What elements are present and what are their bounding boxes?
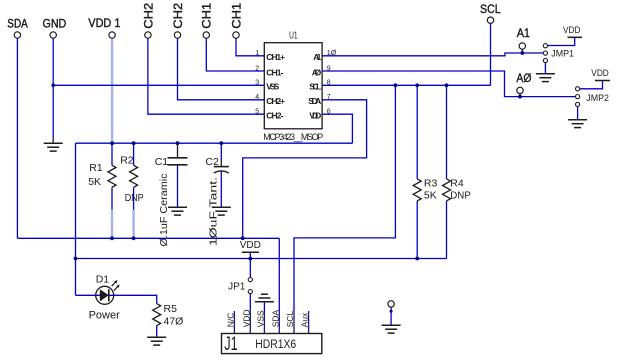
wire JMP2 top pin to VDD	[580, 81, 603, 89]
svg-text:2: 2	[255, 65, 259, 72]
U1 pin numbers	[255, 50, 336, 115]
svg-text:AØ: AØ	[312, 67, 322, 77]
svg-text:4: 4	[255, 94, 259, 101]
svg-text:VSS: VSS	[256, 310, 266, 327]
svg-text:VDD 1: VDD 1	[88, 16, 120, 30]
svg-text:1ØuF Tant.: 1ØuF Tant.	[207, 177, 219, 246]
svg-text:7: 7	[327, 94, 331, 101]
svg-text:CH2-: CH2-	[266, 111, 283, 121]
svg-text:MCP3423__MSOP: MCP3423__MSOP	[263, 132, 323, 142]
node SCL branch tee	[394, 83, 398, 87]
node VSS tap on GND wire	[51, 83, 55, 87]
wire C2 top stub	[220, 143, 222, 160]
wire R1 bottom stub	[111, 187, 113, 209]
wire CH1- terminal to U1 pin2	[206, 38, 264, 71]
node R1 bottom on SDA rail	[110, 236, 114, 240]
node VDD1 on top rail	[110, 141, 114, 145]
terminal A1	[517, 26, 531, 49]
node R3 bottom on VDD rail	[415, 257, 419, 261]
svg-text:CH1: CH1	[229, 2, 243, 28]
svg-text:1Ø: 1Ø	[327, 50, 337, 57]
svg-text:N/C: N/C	[226, 313, 236, 328]
wire U1 pin8 SCL horizontal	[322, 84, 490, 86]
svg-text:C2: C2	[205, 156, 219, 168]
node A0 stem junction	[518, 95, 522, 99]
svg-text:R1: R1	[89, 162, 103, 174]
resistor R4	[443, 178, 472, 202]
wire R5 to ground	[156, 325, 158, 337]
wire GND terminal vertical	[52, 38, 54, 137]
svg-text:8: 8	[327, 80, 331, 87]
terminal CH1 (a)	[200, 2, 214, 38]
svg-text:CH1: CH1	[200, 2, 214, 28]
wire J1 pin6 Aux stub	[308, 311, 310, 334]
capacitor C2	[205, 156, 228, 246]
svg-text:Aux: Aux	[300, 312, 310, 327]
terminal SCL	[480, 2, 501, 23]
terminal mounting hole	[388, 301, 394, 307]
ground below C2	[212, 207, 231, 215]
wire R4 top stub	[446, 85, 448, 179]
svg-text:47Ø: 47Ø	[164, 316, 184, 328]
node R2 bottom on SDA rail	[132, 236, 136, 240]
terminal SDA	[7, 16, 28, 38]
VDD power symbol (JMP2)	[591, 68, 610, 81]
svg-text:U1: U1	[289, 31, 298, 42]
resistor R1	[88, 162, 116, 188]
svg-text:SDA: SDA	[7, 16, 28, 30]
svg-text:VDD: VDD	[240, 240, 261, 251]
svg-text:SCL: SCL	[309, 82, 321, 92]
svg-text:SCL: SCL	[285, 310, 295, 327]
svg-text:R3: R3	[424, 178, 438, 190]
terminal GND	[43, 16, 67, 38]
svg-text:SDA: SDA	[270, 309, 280, 327]
terminal CH2 (b)	[171, 2, 185, 38]
wire R3 top stub	[416, 85, 418, 179]
wire VSS to U1 pin3	[53, 84, 264, 86]
wire A1 terminal stem	[521, 49, 523, 53]
svg-text:5K: 5K	[88, 176, 101, 188]
svg-text:5K: 5K	[424, 190, 437, 202]
wire SCL terminal vertical	[490, 23, 492, 85]
jumper JP1	[228, 278, 252, 294]
svg-text:VDD: VDD	[563, 25, 581, 36]
wire R2 bottom light stub	[132, 210, 134, 239]
wire R2 bottom stub	[133, 187, 135, 209]
svg-text:3: 3	[255, 80, 259, 87]
op-amp U1 body (MCP3423 ADC)	[263, 31, 323, 142]
svg-text:A1: A1	[313, 52, 321, 62]
svg-text:DNP: DNP	[125, 192, 144, 204]
svg-text:VDD: VDD	[591, 68, 609, 79]
resistor R2	[120, 154, 144, 204]
svg-text:CH1-: CH1-	[266, 67, 283, 77]
wire mounting terminal stem	[390, 307, 392, 325]
wire A0 terminal stem	[519, 94, 521, 97]
wire VDD symbol stem to JP1	[249, 252, 251, 277]
wire JMP1 top pin to VDD	[547, 37, 574, 45]
wire C2 bottom	[220, 171, 222, 207]
capacitor C1	[155, 143, 188, 246]
wire U1 pin10 A1 route	[322, 53, 543, 56]
svg-text:VDD: VDD	[309, 111, 321, 121]
wire D1 anode	[76, 294, 96, 296]
svg-text:CH2: CH2	[141, 2, 155, 28]
wire CH2- terminal to U1 pin5	[148, 38, 264, 114]
wire VDD top rail	[76, 142, 353, 144]
terminal CH1 (b)	[229, 2, 243, 38]
wire VDD left vertical	[75, 143, 77, 295]
node VDD symbol tap	[248, 257, 252, 261]
svg-text:A1: A1	[517, 26, 531, 40]
svg-text:C1: C1	[155, 156, 169, 168]
ground below JMP2	[568, 120, 587, 128]
wire R1 bottom light stub	[111, 210, 113, 239]
svg-text:JP1: JP1	[228, 281, 246, 292]
VDD power symbol (JMP1)	[563, 25, 582, 38]
wire C1 bottom	[177, 165, 179, 208]
ground inverted above J1 VSS	[255, 294, 274, 302]
node mounting terminal stem dot	[390, 310, 393, 313]
node C2 top on rail	[219, 141, 223, 145]
node R3 top on SCL	[415, 83, 419, 87]
wire J1 pin1 N/C stub	[233, 311, 235, 334]
wire SDA to J1 pin4	[278, 238, 280, 311]
wire U1 pin6 VDD	[322, 114, 352, 143]
wire SDA rail horizontal	[17, 237, 279, 239]
J1 pin labels	[226, 309, 310, 327]
wire JMP2 bottom pin to ground	[577, 106, 579, 119]
svg-text:R4: R4	[450, 178, 464, 190]
ground below R5	[147, 337, 166, 345]
svg-text:SCL: SCL	[480, 2, 501, 16]
svg-text:R2: R2	[120, 154, 134, 166]
svg-text:Power: Power	[89, 309, 121, 321]
wire CH1+ terminal to U1 pin1	[236, 38, 264, 56]
connector J1 HDR1X6	[222, 334, 322, 356]
svg-text:9: 9	[327, 65, 331, 72]
svg-text:6: 6	[327, 109, 331, 116]
ground below C1	[168, 207, 187, 215]
svg-text:5: 5	[255, 109, 259, 116]
ground below JMP1	[536, 74, 555, 82]
LED D1	[89, 273, 121, 321]
svg-text:J1: J1	[224, 334, 238, 355]
wire CH2+ terminal to U1 pin4	[178, 38, 265, 100]
svg-text:HDR1X6: HDR1X6	[255, 339, 296, 351]
resistor R5	[153, 303, 184, 328]
wire SDA terminal vertical	[16, 38, 18, 238]
wire SCL branch to J1 pin5	[294, 85, 395, 311]
wire JP1 to J1 pin2	[249, 294, 251, 311]
node R4 top on SCL	[445, 83, 449, 87]
svg-text:CH2: CH2	[171, 2, 185, 28]
svg-text:CH2+: CH2+	[266, 96, 285, 106]
svg-text:D1: D1	[96, 273, 110, 285]
svg-text:GND: GND	[43, 16, 67, 30]
jumper JMP2	[576, 87, 610, 107]
svg-text:VDD: VDD	[241, 309, 251, 327]
VDD power symbol (center)	[240, 240, 261, 252]
svg-text:JMP2: JMP2	[586, 93, 609, 104]
wire JMP1 bottom pin to ground	[544, 63, 546, 74]
node C1 top on rail	[176, 141, 180, 145]
svg-text:JMP1: JMP1	[551, 48, 574, 59]
jumper JMP1	[543, 44, 574, 63]
svg-text:Ø.1uF Ceramic: Ø.1uF Ceramic	[158, 174, 170, 247]
svg-text:VSS: VSS	[266, 82, 279, 92]
svg-text:DNP: DNP	[450, 191, 471, 202]
wire J1 pin3 VSS stub	[263, 302, 265, 311]
wire R1 top stub	[111, 143, 113, 165]
wire VDD1 terminal vertical (light)	[111, 38, 113, 143]
svg-text:1: 1	[255, 50, 259, 57]
node VDD rail left tee	[74, 257, 78, 261]
terminal CH2 (a)	[141, 2, 155, 38]
ground below mounting terminal	[382, 325, 401, 333]
node R2 top on rail	[132, 141, 136, 145]
wire D1 to R5	[114, 295, 157, 303]
wire R3 bottom stub	[416, 201, 418, 259]
wire U1 pin9 A0 route	[322, 71, 575, 97]
svg-text:R5: R5	[164, 303, 178, 315]
node U1 SDA joins SDA rail	[241, 236, 245, 240]
terminal A0	[516, 71, 531, 94]
U1 pin names	[266, 52, 321, 120]
svg-text:SDA: SDA	[308, 96, 321, 106]
resistor R3	[413, 178, 437, 202]
wire R2 top stub	[133, 143, 135, 165]
terminal VDD 1	[88, 16, 120, 38]
node A1 stem junction	[520, 51, 524, 55]
svg-text:AØ: AØ	[516, 71, 531, 85]
svg-text:CH1+: CH1+	[266, 52, 285, 62]
ground below GND terminal	[44, 143, 63, 151]
wire U1 pin7 SDA route	[243, 100, 367, 239]
wire VDD lower rail	[76, 258, 447, 260]
wire R4 bottom stub	[446, 201, 448, 259]
